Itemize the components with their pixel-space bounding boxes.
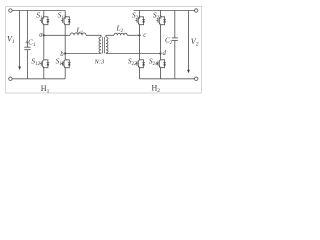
wire leg2 bridge1 upper bbox=[64, 11, 66, 15]
node c bbox=[138, 34, 140, 36]
wire leg2 bridge2 mid bbox=[160, 27, 162, 58]
node d bbox=[159, 52, 161, 54]
transistor S21 bbox=[135, 15, 145, 28]
inductor L1 bbox=[70, 33, 86, 35]
svg-text:+C1: +C1 bbox=[25, 39, 36, 48]
wire leg1 bridge2 upper bbox=[139, 11, 141, 15]
transformer secondary winding bbox=[106, 37, 108, 54]
wire leg1 bridge1 upper bbox=[43, 11, 45, 15]
wire leg2 bridge2 upper bbox=[160, 11, 162, 15]
svg-text:L2: L2 bbox=[116, 24, 124, 34]
node a bbox=[43, 34, 45, 36]
wire secondary top to inductor L2 bbox=[106, 35, 114, 37]
transistor S12 bbox=[40, 58, 50, 71]
transistor S14 bbox=[61, 58, 71, 71]
wire bottom rail bridge1 bbox=[12, 78, 65, 80]
svg-text:S24: S24 bbox=[149, 57, 158, 67]
voltage arrow V1 bbox=[18, 11, 21, 71]
transistor S22 bbox=[135, 58, 145, 71]
wire leg2 bridge2 lower bbox=[160, 70, 162, 79]
voltage arrow V2 bbox=[187, 11, 190, 74]
svg-text:S22: S22 bbox=[128, 57, 137, 67]
svg-text:S12: S12 bbox=[31, 57, 40, 67]
node b bbox=[64, 52, 66, 54]
wire inductor L2 to node c bbox=[127, 34, 139, 36]
transistor S24 bbox=[156, 58, 166, 71]
wire leg2 bridge1 mid bbox=[64, 27, 66, 58]
transistor S23 bbox=[156, 15, 166, 28]
wire node a to inductor bbox=[44, 34, 70, 36]
capacitor C1 bbox=[24, 11, 30, 79]
svg-text:N:3: N:3 bbox=[94, 59, 106, 66]
wire node b to transformer bbox=[65, 53, 101, 55]
svg-text:V2: V2 bbox=[191, 37, 199, 48]
transformer core bbox=[103, 37, 105, 54]
wire leg1 bridge2 lower bbox=[139, 70, 141, 79]
svg-text:C2: C2 bbox=[165, 37, 173, 46]
terminal top-right bbox=[195, 9, 198, 12]
svg-text:b: b bbox=[60, 51, 64, 58]
wire leg1 bridge2 mid bbox=[139, 27, 141, 58]
transistor S13 bbox=[61, 15, 71, 28]
svg-text:H2: H2 bbox=[152, 84, 161, 95]
border frame bbox=[6, 7, 202, 94]
wire top rail bridge1 bbox=[12, 10, 65, 12]
terminal bottom-right bbox=[195, 77, 198, 80]
inductor L2 bbox=[114, 33, 127, 35]
svg-text:S11: S11 bbox=[36, 11, 44, 21]
transformer primary winding bbox=[99, 37, 101, 54]
svg-text:d: d bbox=[163, 50, 167, 57]
terminal bottom-left bbox=[9, 77, 12, 80]
wire inductor to transformer bbox=[86, 35, 101, 37]
wire leg1 bridge1 mid bbox=[43, 27, 45, 58]
svg-text:L1: L1 bbox=[76, 26, 84, 36]
wire leg1 bridge1 lower bbox=[43, 70, 45, 79]
svg-text:a: a bbox=[39, 32, 43, 39]
transistor S11 bbox=[40, 15, 50, 28]
capacitor C2 bbox=[172, 11, 178, 79]
svg-text:H1: H1 bbox=[41, 84, 50, 95]
svg-text:c: c bbox=[143, 32, 146, 39]
wire bottom rail bridge2 bbox=[140, 78, 195, 80]
wire leg2 bridge1 lower bbox=[64, 70, 66, 79]
terminal top-left bbox=[9, 9, 12, 12]
svg-text:V1: V1 bbox=[7, 35, 15, 46]
wire top rail bridge2 bbox=[134, 10, 195, 12]
wire secondary bottom to node d bbox=[106, 53, 161, 55]
